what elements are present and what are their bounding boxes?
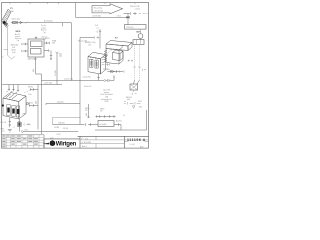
bus y106 [46, 103, 80, 105]
svg-text:WK/30: WK/30 [28, 103, 33, 105]
drop to bus [97, 74, 99, 81]
wire battery bus to node [22, 23, 71, 27]
svg-text:Wxx: Wxx [59, 54, 62, 56]
parts table [2, 135, 44, 148]
svg-text:plug (30): plug (30) [57, 102, 64, 104]
svg-text:(30): (30) [33, 69, 35, 72]
svg-text:3-0: 3-0 [2, 131, 4, 133]
top feeder wire [76, 3, 129, 25]
riser top text [138, 101, 142, 109]
svg-text:WF4: WF4 [1, 128, 5, 130]
wire to module [53, 123, 99, 126]
pin stub top [35, 37, 37, 40]
pin stub right 87 [44, 42, 50, 44]
enclosure stub [2, 50, 8, 57]
svg-text:10: 10 [123, 115, 125, 117]
center node text [59, 54, 62, 58]
bracket LWK [125, 25, 147, 30]
svg-text:WK/30: WK/30 [28, 87, 33, 89]
pin crosses above module [96, 115, 116, 118]
svg-text:111196 A: 111196 A [127, 138, 146, 142]
svg-text:L/W-1: L/W-1 [117, 15, 121, 17]
svg-text:(30): (30) [127, 99, 130, 101]
svg-text:4Qmm (30): 4Qmm (30) [12, 19, 21, 21]
pilot marks [128, 60, 133, 62]
cross marks on dashed [133, 66, 140, 68]
side connector [24, 123, 29, 125]
offpage arrow banner [92, 4, 123, 14]
note paragraph right [100, 90, 113, 104]
top right text [130, 5, 140, 11]
note paragraph center [41, 24, 47, 41]
plus terminals above cube [7, 85, 20, 93]
right riser wire [95, 110, 147, 130]
svg-text:3-01: 3-01 [12, 47, 15, 49]
svg-text:(30): (30) [86, 113, 88, 116]
svg-text:1/8: 1/8 [100, 111, 102, 113]
svg-text:Wirtgen: Wirtgen [56, 142, 77, 148]
battery G1 (isometric, hatched) [2, 9, 11, 27]
branch wire [87, 104, 89, 118]
feed labels [95, 25, 99, 29]
svg-text:115/08 (30): 115/08 (30) [93, 15, 102, 17]
plug connector pair [104, 80, 106, 82]
svg-text:Fx/1: Fx/1 [95, 25, 98, 27]
title block lines [44, 136, 149, 148]
dashed control lines [135, 45, 140, 81]
lamp wires down [9, 118, 11, 128]
pin stub left [22, 43, 28, 45]
svg-text:(30): (30) [59, 56, 62, 58]
connector X3 stub [30, 88, 38, 90]
valve symbols inside [90, 57, 99, 68]
module text [126, 97, 132, 101]
solenoid feed wire [99, 29, 101, 49]
mount hatch [104, 51, 107, 62]
branch text [85, 108, 89, 112]
relay K1 coil [31, 41, 43, 47]
bus y80 [42, 80, 104, 82]
valve block cube [88, 52, 106, 74]
svg-text:1 - 4 Bl: 1 - 4 Bl [129, 144, 135, 146]
svg-text:WF1/30: WF1/30 [126, 97, 132, 99]
lamp slots [7, 105, 20, 118]
connector arc right [142, 69, 146, 71]
svg-text:1.9m: 1.9m [28, 94, 32, 96]
svg-text:+1: +1 [13, 126, 15, 128]
terminal box S1 [133, 40, 144, 45]
svg-text:23/8: 23/8 [105, 97, 108, 99]
svg-text:1/2/3M: 1/2/3M [54, 127, 60, 129]
arc minus symbols [132, 93, 137, 95]
side text [22, 113, 26, 116]
X-box module [134, 80, 140, 84]
svg-text:W/1 1/4: W/1 1/4 [1, 122, 7, 124]
bottom wire [21, 131, 23, 133]
arrow right of cube [27, 103, 30, 105]
svg-text:(30): (30) [25, 130, 28, 132]
svg-text:1/8: 1/8 [85, 110, 87, 112]
left cube assembly [3, 93, 26, 120]
svg-text:(30): (30) [35, 101, 37, 104]
bus y84 [2, 84, 62, 86]
valve solenoid circle [138, 34, 143, 39]
svg-text:11.0: 11.0 [85, 138, 88, 140]
module right wire [114, 123, 121, 130]
svg-text:Sich-kas: Sich-kas [15, 38, 21, 40]
svg-text:L30: L30 [88, 44, 91, 46]
connector X5 [124, 12, 137, 15]
svg-text:n4/8 (30): n4/8 (30) [58, 123, 65, 125]
svg-text:(30): (30) [52, 43, 55, 45]
svg-text:W1 (30): W1 (30) [103, 69, 109, 71]
enclosure outline [8, 28, 15, 60]
relay K1 contact [31, 49, 42, 55]
ground [8, 130, 12, 133]
drop wire x80 [80, 38, 94, 125]
svg-text:(30): (30) [139, 107, 142, 109]
terminal dot [2, 104, 4, 106]
leader dashed [106, 49, 117, 72]
svg-text:ab 1/2 08: ab 1/2 08 [103, 90, 110, 92]
inner cube [113, 50, 124, 61]
svg-text:3: 3 [49, 51, 50, 53]
module top text [100, 109, 104, 113]
wire pair down-left [38, 74, 42, 134]
svg-text:1-00: 1-00 [50, 137, 53, 139]
wire under housing [108, 70, 123, 73]
pin stub bottom [34, 57, 36, 62]
svg-text:WF-sch (30): WF-sch (30) [78, 40, 87, 42]
svg-text:30(30): 30(30) [45, 38, 50, 40]
arrow down [133, 106, 135, 109]
module M1 box [98, 121, 114, 127]
svg-text:WFD: WFD [16, 31, 21, 33]
svg-text:W-sch 30: W-sch 30 [84, 86, 91, 88]
center wire with fork [56, 52, 59, 85]
svg-text:1/8 1/8: 1/8 1/8 [63, 128, 68, 130]
svg-text:3-08: 3-08 [12, 52, 15, 54]
Wirtgen logo [43, 140, 77, 147]
housing K1 isometric [106, 41, 132, 65]
svg-text:WF1e: WF1e [85, 108, 89, 110]
svg-text:Lampe: Lampe [41, 27, 46, 29]
junction [127, 16, 129, 18]
note text block [15, 33, 21, 42]
svg-text:WF8n: WF8n [100, 109, 104, 111]
svg-text:U/O4: U/O4 [57, 134, 61, 136]
lamp text left [1, 122, 32, 126]
connector X4 stub [29, 104, 38, 106]
relay K1 outer box [28, 39, 44, 57]
pilot cross right [106, 54, 110, 66]
frame top ticks [10, 3, 135, 5]
leader dashed [24, 90, 32, 94]
pin stub right 30 [44, 49, 52, 60]
connector on feed [94, 36, 99, 38]
fuse F1 symbol [11, 21, 22, 24]
svg-text:1/200: 1/200 [104, 101, 108, 103]
svg-text:LWK (30): LWK (30) [127, 27, 134, 29]
enclosure note text [11, 44, 19, 55]
svg-text:3-0 (30): 3-0 (30) [55, 70, 57, 76]
valve block BV8 label [85, 42, 96, 46]
svg-text:c-2: c-2 [81, 142, 83, 144]
connector arc [119, 70, 124, 72]
drop wire to bus [71, 23, 73, 81]
svg-text:e-1: e-1 [81, 138, 83, 140]
resistor dark [18, 122, 22, 126]
svg-text:W2/1: W2/1 [138, 101, 142, 103]
frame border [2, 3, 149, 149]
connector X6 [124, 102, 140, 105]
